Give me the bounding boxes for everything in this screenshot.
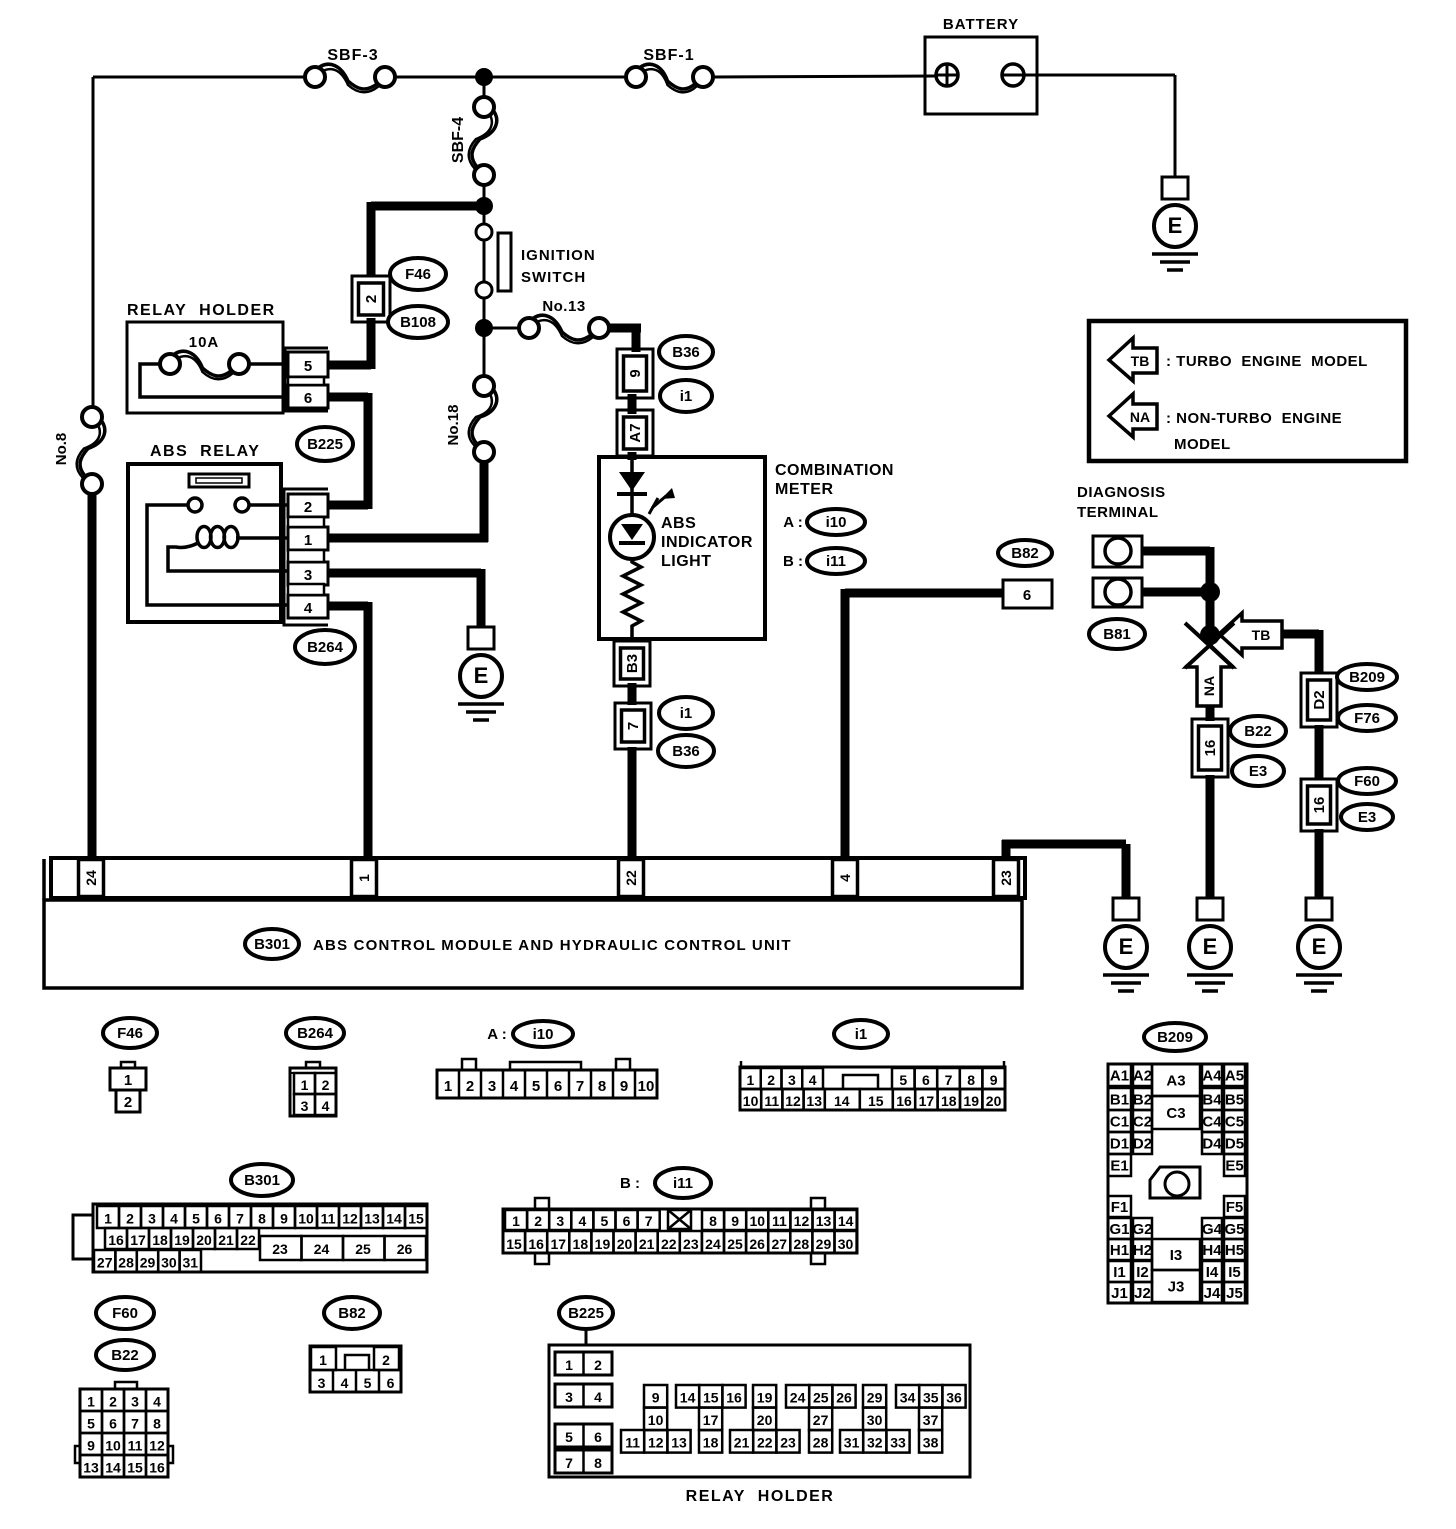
svg-text:G4: G4 [1202,1221,1223,1238]
svg-text:i10: i10 [533,1026,554,1043]
svg-text:RELAY HOLDER: RELAY HOLDER [686,1488,835,1505]
svg-text:B82: B82 [1011,545,1039,562]
svg-text:13: 13 [83,1460,99,1476]
svg-text:27: 27 [813,1412,829,1428]
svg-text:B36: B36 [672,344,700,361]
svg-text:26: 26 [397,1241,413,1257]
svg-text:15: 15 [506,1236,522,1252]
svg-text:21: 21 [639,1236,655,1252]
svg-text:No.8: No.8 [53,433,70,466]
svg-text:F46: F46 [117,1025,143,1042]
svg-text:24: 24 [83,870,99,886]
svg-text:8: 8 [709,1213,717,1229]
svg-text:25: 25 [813,1390,829,1406]
svg-text:9: 9 [280,1211,288,1227]
svg-text:1: 1 [565,1357,573,1373]
svg-text:4: 4 [837,874,853,882]
svg-text:3: 3 [488,1078,496,1095]
svg-text:15: 15 [703,1390,719,1406]
svg-text:B264: B264 [297,1025,334,1042]
svg-text:IGNITION: IGNITION [521,247,596,264]
svg-text:MODEL: MODEL [1174,436,1231,453]
svg-text:19: 19 [963,1093,979,1109]
svg-text:19: 19 [174,1232,190,1248]
svg-text:B81: B81 [1103,626,1131,643]
svg-text:19: 19 [595,1236,611,1252]
svg-text:31: 31 [844,1435,860,1451]
svg-text:SWITCH: SWITCH [521,269,586,286]
svg-text:D2: D2 [1133,1136,1152,1153]
svg-text:J5: J5 [1226,1285,1243,1302]
svg-text:B209: B209 [1349,669,1385,686]
svg-text:6: 6 [304,390,312,407]
svg-text:8: 8 [594,1455,602,1471]
svg-text:18: 18 [941,1093,957,1109]
svg-text:14: 14 [834,1093,850,1109]
svg-text:10: 10 [298,1211,314,1227]
svg-text:10: 10 [648,1412,664,1428]
svg-text:E1: E1 [1110,1158,1128,1175]
svg-text:D1: D1 [1110,1136,1129,1153]
svg-text:G1: G1 [1109,1221,1129,1238]
svg-text:12: 12 [342,1211,358,1227]
svg-text:B1: B1 [1110,1092,1129,1109]
svg-text:5: 5 [565,1429,573,1445]
svg-text:31: 31 [183,1255,199,1271]
svg-text:13: 13 [364,1211,380,1227]
svg-text:11: 11 [772,1213,787,1229]
svg-text:A1: A1 [1110,1068,1129,1085]
svg-text:E5: E5 [1225,1158,1243,1175]
svg-text:9: 9 [620,1078,628,1095]
svg-text:E: E [474,663,489,688]
svg-text:i1: i1 [680,705,693,722]
svg-text:ABS: ABS [661,515,696,532]
svg-text:G2: G2 [1132,1221,1152,1238]
svg-text:23: 23 [272,1241,288,1257]
svg-text:H5: H5 [1225,1242,1244,1259]
svg-text:4: 4 [809,1072,817,1088]
svg-text:G5: G5 [1224,1221,1244,1238]
svg-text:18: 18 [152,1232,168,1248]
svg-text:16: 16 [528,1236,544,1252]
svg-text:2: 2 [534,1213,542,1229]
svg-text:10A: 10A [189,334,220,351]
svg-text:A :: A : [783,514,802,531]
svg-text:9: 9 [652,1390,660,1406]
svg-text:B5: B5 [1225,1092,1244,1109]
svg-text:1: 1 [87,1394,95,1410]
svg-text:2: 2 [322,1077,330,1093]
svg-text:NA: NA [1130,409,1150,425]
svg-text:4: 4 [153,1394,161,1410]
svg-text:I4: I4 [1206,1264,1219,1281]
svg-text:23: 23 [780,1435,796,1451]
svg-text:A3: A3 [1166,1073,1185,1090]
svg-text:16: 16 [149,1460,165,1476]
svg-text:29: 29 [140,1255,156,1271]
svg-text:10: 10 [749,1213,765,1229]
svg-text:22: 22 [623,870,639,886]
svg-text:20: 20 [986,1093,1002,1109]
svg-text:29: 29 [816,1236,832,1252]
svg-text:: TURBO ENGINE MODEL: : TURBO ENGINE MODEL [1166,353,1368,370]
svg-text:16: 16 [108,1232,124,1248]
svg-text:TB: TB [1131,353,1150,369]
svg-text:16: 16 [1202,740,1219,757]
svg-text:28: 28 [118,1255,134,1271]
svg-text:A2: A2 [1133,1068,1152,1085]
svg-text:E: E [1168,213,1183,238]
svg-text:8: 8 [153,1416,161,1432]
svg-text:6: 6 [594,1429,602,1445]
svg-text:22: 22 [757,1435,773,1451]
svg-text:16: 16 [896,1093,912,1109]
svg-text:i11: i11 [673,1175,693,1192]
svg-text:16: 16 [1311,797,1328,814]
svg-text:B264: B264 [307,639,344,656]
svg-text:14: 14 [680,1390,696,1406]
svg-text:J1: J1 [1111,1285,1128,1302]
svg-text:2: 2 [594,1357,602,1373]
svg-text:17: 17 [550,1236,566,1252]
svg-text:1: 1 [444,1078,452,1095]
svg-text:DIAGNOSIS: DIAGNOSIS [1077,484,1166,501]
svg-text:8: 8 [598,1078,606,1095]
svg-text:11: 11 [321,1211,336,1227]
svg-text:19: 19 [757,1390,773,1406]
svg-text:A :: A : [487,1026,506,1043]
svg-text:18: 18 [703,1435,719,1451]
svg-text:6: 6 [623,1213,631,1229]
svg-text:E3: E3 [1358,809,1376,826]
svg-text:E: E [1312,934,1327,959]
svg-text:21: 21 [218,1232,234,1248]
svg-text:24: 24 [790,1390,806,1406]
svg-text:10: 10 [105,1438,121,1454]
svg-text:5: 5 [899,1072,907,1088]
svg-text:13: 13 [806,1093,822,1109]
svg-text:7: 7 [625,722,642,730]
svg-text:3: 3 [131,1394,139,1410]
svg-text:4: 4 [304,600,313,617]
svg-text:22: 22 [661,1236,677,1252]
svg-text:No.13: No.13 [542,298,585,315]
svg-text:B22: B22 [1244,723,1272,740]
svg-text:21: 21 [734,1435,750,1451]
svg-text:F5: F5 [1226,1199,1244,1216]
svg-text:ABS RELAY: ABS RELAY [150,443,260,460]
svg-text:30: 30 [867,1412,883,1428]
svg-text:i1: i1 [680,388,693,405]
svg-text:15: 15 [868,1093,884,1109]
svg-text:B36: B36 [672,743,700,760]
svg-text:2: 2 [767,1072,775,1088]
svg-text:A5: A5 [1225,1068,1244,1085]
svg-text:4: 4 [510,1078,519,1095]
svg-text:2: 2 [304,499,312,516]
svg-text:NA: NA [1201,676,1217,696]
svg-text:30: 30 [161,1255,177,1271]
svg-text:1: 1 [301,1077,309,1093]
svg-text:25: 25 [355,1241,371,1257]
svg-text:SBF-3: SBF-3 [327,47,378,64]
svg-text:H1: H1 [1110,1242,1129,1259]
svg-text:3: 3 [148,1211,156,1227]
svg-text:B209: B209 [1157,1029,1193,1046]
svg-text:B301: B301 [254,936,290,953]
svg-text:1: 1 [356,874,372,882]
svg-text:6: 6 [922,1072,930,1088]
svg-text:9: 9 [731,1213,739,1229]
svg-text:2: 2 [109,1394,117,1410]
svg-text:36: 36 [946,1390,962,1406]
svg-text:9: 9 [627,369,644,377]
svg-text:METER: METER [775,481,834,498]
svg-text:34: 34 [900,1390,916,1406]
svg-text:18: 18 [573,1236,589,1252]
svg-text:TERMINAL: TERMINAL [1077,504,1159,521]
svg-text:SBF-4: SBF-4 [450,117,467,163]
svg-text:B3: B3 [624,654,641,673]
svg-text:4: 4 [170,1211,178,1227]
svg-text:A4: A4 [1202,1068,1222,1085]
svg-text:6: 6 [109,1416,117,1432]
svg-text:2: 2 [466,1078,474,1095]
svg-text:20: 20 [196,1232,212,1248]
svg-text:F46: F46 [405,266,431,283]
svg-text:A7: A7 [627,423,644,442]
svg-text:5: 5 [364,1375,372,1391]
svg-text:B225: B225 [568,1305,604,1322]
svg-text:30: 30 [838,1236,854,1252]
svg-text:TB: TB [1252,627,1271,643]
svg-text:BATTERY: BATTERY [943,16,1019,33]
svg-text:I1: I1 [1113,1264,1126,1281]
svg-text:B108: B108 [400,314,436,331]
svg-text:23: 23 [998,870,1014,886]
svg-text:7: 7 [565,1455,573,1471]
svg-text:C1: C1 [1110,1114,1129,1131]
svg-text:F76: F76 [1354,710,1380,727]
svg-text:3: 3 [301,1098,309,1114]
svg-text:H4: H4 [1202,1242,1222,1259]
svg-text:5: 5 [601,1213,609,1229]
svg-text:2: 2 [126,1211,134,1227]
svg-text:13: 13 [816,1213,832,1229]
svg-text:LIGHT: LIGHT [661,553,712,570]
svg-text:4: 4 [341,1375,349,1391]
svg-text:3: 3 [318,1375,326,1391]
svg-text:SBF-1: SBF-1 [643,47,694,64]
svg-text:4: 4 [594,1389,602,1405]
svg-text:D2: D2 [1311,690,1328,709]
svg-text:20: 20 [617,1236,633,1252]
svg-text:E: E [1119,934,1134,959]
svg-text:29: 29 [867,1390,883,1406]
svg-text:15: 15 [127,1460,143,1476]
svg-text:2: 2 [363,295,380,303]
svg-text:28: 28 [794,1236,810,1252]
svg-text:5: 5 [532,1078,540,1095]
svg-text:i11: i11 [826,553,846,570]
svg-text:J3: J3 [1168,1279,1185,1296]
svg-text:1: 1 [319,1352,327,1368]
svg-text:1: 1 [104,1211,112,1227]
svg-text:ABS CONTROL MODULE AND HYDRAUL: ABS CONTROL MODULE AND HYDRAULIC CONTROL… [313,937,792,954]
svg-text:E3: E3 [1249,763,1267,780]
svg-text:1: 1 [512,1213,520,1229]
svg-text:27: 27 [97,1255,113,1271]
svg-text:13: 13 [671,1435,687,1451]
svg-text:7: 7 [945,1072,953,1088]
svg-text:RELAY HOLDER: RELAY HOLDER [127,302,276,319]
svg-text:F60: F60 [1354,773,1380,790]
svg-text:5: 5 [192,1211,200,1227]
svg-text:B22: B22 [111,1347,139,1364]
svg-text:6: 6 [387,1375,395,1391]
svg-text:23: 23 [683,1236,699,1252]
svg-text:24: 24 [314,1241,330,1257]
svg-text:26: 26 [749,1236,765,1252]
svg-text:3: 3 [556,1213,564,1229]
svg-text:12: 12 [794,1213,810,1229]
svg-text:B4: B4 [1202,1092,1222,1109]
svg-text:8: 8 [258,1211,266,1227]
svg-text:7: 7 [236,1211,244,1227]
svg-text:D5: D5 [1225,1136,1244,1153]
svg-text:22: 22 [240,1232,256,1248]
svg-text:11: 11 [764,1093,779,1109]
svg-text:7: 7 [131,1416,139,1432]
svg-text:I2: I2 [1136,1264,1149,1281]
svg-text:E: E [1203,934,1218,959]
svg-text:17: 17 [703,1412,719,1428]
svg-text:J4: J4 [1204,1285,1221,1302]
svg-text:6: 6 [1023,587,1031,604]
svg-text:28: 28 [813,1435,829,1451]
svg-text:2: 2 [382,1352,390,1368]
svg-text:F1: F1 [1111,1199,1129,1216]
svg-text:12: 12 [149,1438,165,1454]
svg-text:F60: F60 [112,1305,138,1322]
svg-text:COMBINATION: COMBINATION [775,462,894,479]
svg-text:B82: B82 [338,1305,366,1322]
svg-text:D4: D4 [1202,1136,1222,1153]
svg-text:24: 24 [705,1236,721,1252]
svg-text:I5: I5 [1228,1264,1241,1281]
svg-text:5: 5 [87,1416,95,1432]
svg-text:33: 33 [890,1435,906,1451]
svg-text:11: 11 [625,1435,640,1451]
svg-text:14: 14 [105,1460,121,1476]
svg-text:20: 20 [757,1412,773,1428]
svg-text:INDICATOR: INDICATOR [661,534,753,551]
svg-text:9: 9 [87,1438,95,1454]
svg-text:25: 25 [727,1236,743,1252]
svg-text:4: 4 [322,1098,330,1114]
svg-text:J2: J2 [1134,1285,1151,1302]
svg-text:B :: B : [620,1175,640,1192]
svg-text:B :: B : [783,553,803,570]
svg-text:H2: H2 [1133,1242,1152,1259]
svg-text:No.18: No.18 [445,405,462,446]
svg-text:37: 37 [923,1412,939,1428]
svg-text:B2: B2 [1133,1092,1152,1109]
svg-text:C5: C5 [1225,1114,1244,1131]
svg-text:17: 17 [130,1232,146,1248]
svg-text:1: 1 [304,532,312,549]
svg-text:8: 8 [967,1072,975,1088]
svg-text:12: 12 [785,1093,801,1109]
svg-text:10: 10 [743,1093,759,1109]
svg-text:1: 1 [746,1072,754,1088]
svg-text:35: 35 [923,1390,939,1406]
svg-text:14: 14 [386,1211,402,1227]
svg-text:1: 1 [124,1072,132,1089]
svg-text:B301: B301 [244,1172,280,1189]
svg-text:26: 26 [836,1390,852,1406]
svg-text:: NON-TURBO ENGINE: : NON-TURBO ENGINE [1166,410,1342,427]
svg-text:I3: I3 [1170,1247,1183,1264]
svg-text:i1: i1 [855,1026,868,1043]
svg-text:27: 27 [771,1236,787,1252]
svg-text:14: 14 [838,1213,854,1229]
svg-text:3: 3 [788,1072,796,1088]
svg-text:C4: C4 [1202,1114,1222,1131]
svg-text:i10: i10 [826,514,847,531]
svg-text:5: 5 [304,358,312,375]
svg-text:17: 17 [919,1093,935,1109]
svg-text:7: 7 [576,1078,584,1095]
svg-text:10: 10 [638,1078,655,1095]
svg-text:3: 3 [304,567,312,584]
svg-text:B225: B225 [307,436,343,453]
svg-text:38: 38 [923,1435,939,1451]
svg-text:12: 12 [648,1435,664,1451]
svg-text:C3: C3 [1166,1105,1185,1122]
svg-text:16: 16 [726,1390,742,1406]
svg-text:C2: C2 [1133,1114,1152,1131]
svg-text:6: 6 [554,1078,562,1095]
svg-text:7: 7 [645,1213,653,1229]
svg-text:9: 9 [990,1072,998,1088]
svg-text:32: 32 [867,1435,883,1451]
svg-text:6: 6 [214,1211,222,1227]
svg-text:3: 3 [565,1389,573,1405]
svg-text:2: 2 [124,1094,132,1111]
svg-text:15: 15 [408,1211,424,1227]
svg-text:4: 4 [578,1213,586,1229]
svg-text:11: 11 [128,1438,143,1454]
